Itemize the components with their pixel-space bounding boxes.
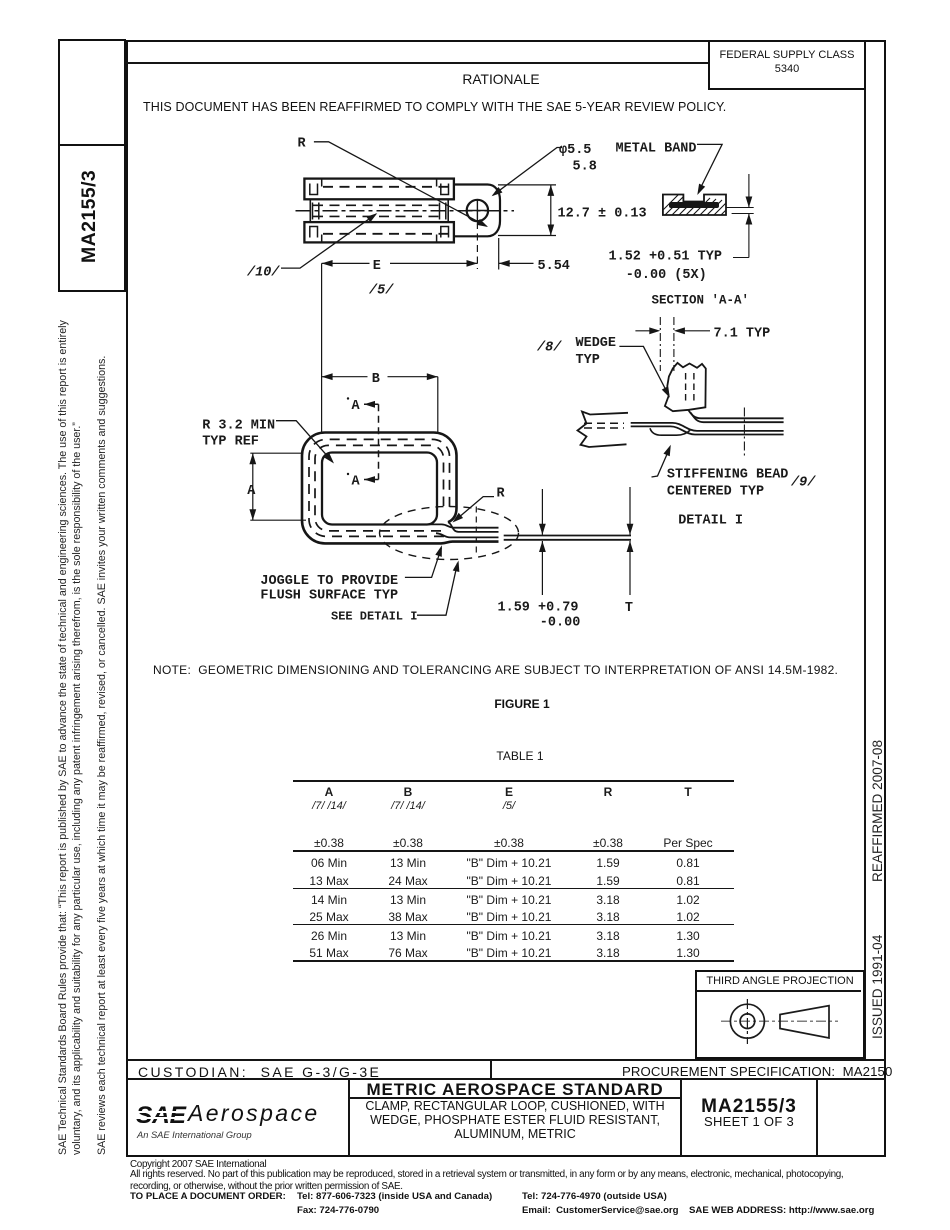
dimension 1.59 (541, 489, 543, 595)
table header row (0, 784, 1, 786)
table data rows (0, 855, 1, 857)
dashed cushion lines bottom band (323, 233, 449, 235)
dimension 7.1 (635, 330, 710, 332)
number cell (682, 1096, 816, 1118)
FIGURE 1 (422, 697, 622, 711)
loop inner edge (322, 453, 437, 525)
section cut line A-A (378, 404, 380, 479)
inner right column line (864, 40, 866, 1060)
table datum refs row (0, 799, 1, 801)
svg-text:/9/: /9/ (790, 476, 816, 491)
bolt hole circle (467, 200, 488, 221)
leader SEE DETAIL I (417, 563, 458, 615)
svg-text:E: E (373, 259, 381, 274)
NOTE line (153, 663, 838, 677)
wedge (665, 363, 706, 411)
joggled strap (631, 423, 784, 431)
custodian band (126, 1059, 886, 1061)
svg-text:T: T (625, 601, 633, 616)
svg-text:5.8: 5.8 (573, 160, 597, 175)
third angle projection symbol (695, 992, 865, 1058)
leader phi 5.5 (493, 148, 562, 196)
clamp top band (304, 179, 454, 200)
svg-text:WEDGE: WEDGE (576, 336, 617, 351)
leader R (front view) (455, 497, 495, 521)
svg-text:METAL BAND: METAL BAND (616, 142, 697, 157)
svg-text:FLUSH SURFACE TYP: FLUSH SURFACE TYP (260, 589, 398, 604)
upper strap (from wedge) (688, 409, 784, 418)
detail centerline (743, 408, 745, 456)
hole center extension (476, 222, 478, 269)
right column rotated: REAFFIRMED 2007-08 (870, 740, 885, 882)
leader /10/ (281, 214, 376, 268)
table tolerance row (0, 835, 1, 837)
svg-text:JOGGLE TO PROVIDE: JOGGLE TO PROVIDE (260, 574, 398, 589)
table rules (293, 780, 734, 782)
title block dividers (348, 1080, 350, 1156)
joggle centerline (475, 507, 477, 553)
stiffening bead (650, 428, 690, 435)
mounting lobe (454, 185, 500, 237)
dimension B (322, 376, 438, 378)
left sidebar rotated disclaimer line 2 (71, 422, 83, 1155)
E/B shared extension line (321, 263, 323, 432)
centerline (296, 210, 515, 212)
leader METAL BAND (697, 144, 722, 192)
clamp bottom band (304, 222, 454, 242)
7.1 typ extension centerlines (660, 317, 674, 371)
left column box empty (58, 39, 126, 146)
middle band end edges (310, 199, 448, 222)
combined strap (504, 536, 631, 540)
title cell (350, 1080, 680, 1100)
dimension T (629, 487, 631, 595)
dimension 12.7 (498, 185, 556, 236)
svg-text:SEE DETAIL I: SEE DETAIL I (331, 609, 417, 623)
right column rotated: ISSUED 1991-04 (870, 935, 885, 1039)
left sidebar rotated disclaimer line 3 (96, 356, 108, 1155)
svg-text:R: R (497, 487, 506, 502)
federal supply class box (708, 40, 866, 90)
dashed cushion lines top band (323, 186, 449, 188)
svg-text:1.52 +0.51 TYP: 1.52 +0.51 TYP (609, 250, 722, 265)
svg-text:TYP: TYP (576, 353, 600, 368)
TABLE 1 label (420, 749, 620, 763)
svg-text:CENTERED TYP: CENTERED TYP (667, 485, 764, 500)
svg-text:7.1 TYP: 7.1 TYP (714, 326, 771, 341)
metal band bar (669, 202, 719, 208)
lobe edge extension (498, 238, 500, 270)
joggle detail ellipse (380, 507, 519, 560)
svg-text:/8/: /8/ (536, 341, 562, 356)
svg-text:TYP REF: TYP REF (202, 434, 259, 449)
reaffirmed statement (143, 100, 726, 114)
svg-text:-0.00: -0.00 (540, 616, 581, 631)
RATIONALE heading (340, 72, 662, 87)
third angle projection box (695, 970, 865, 1059)
dimension 1.52 (726, 174, 754, 258)
B right extension line (437, 377, 439, 433)
loop cushion dashed lines (309, 439, 450, 536)
dimension 5.54 (499, 262, 534, 264)
svg-text:-0.00 (5X): -0.00 (5X) (626, 268, 707, 283)
left column box MA2155/3 (58, 144, 126, 292)
leader R 3.2 MIN TYP REF (276, 421, 333, 462)
lower exit strap (436, 533, 499, 537)
svg-text:1.59 +0.79: 1.59 +0.79 (498, 601, 579, 616)
left sidebar rotated disclaimer line 1 (57, 320, 69, 1155)
SAE Aerospace logo (136, 1098, 351, 1146)
torn strap end (578, 412, 629, 448)
main frame (126, 40, 886, 1157)
svg-text:R: R (298, 137, 307, 152)
loop outer edge (302, 433, 499, 544)
svg-text:A: A (352, 399, 361, 414)
upper exit strap (427, 524, 499, 527)
svg-text:STIFFENING BEAD: STIFFENING BEAD (667, 468, 789, 483)
tab marks left (310, 179, 322, 243)
leader JOGGLE (405, 548, 442, 578)
svg-text:/5/: /5/ (368, 284, 394, 299)
svg-text:B: B (372, 372, 380, 387)
leader STIFFENING BEAD (652, 449, 670, 478)
leader R (top view) (314, 142, 487, 226)
rationale rule (126, 62, 708, 64)
svg-text:5.54: 5.54 (538, 259, 570, 274)
hatching (655, 193, 746, 229)
leader WEDGE TYP (619, 346, 668, 395)
svg-text:SECTION 'A-A': SECTION 'A-A' (652, 294, 750, 308)
svg-text:/10/: /10/ (246, 266, 280, 281)
dimension E (322, 262, 478, 264)
dashed lines middle band (313, 204, 446, 206)
band cross-section outline (663, 195, 726, 216)
svg-text:12.7 ± 0.13: 12.7 ± 0.13 (558, 207, 647, 222)
svg-text:A: A (247, 484, 256, 499)
dimension A (250, 453, 306, 520)
svg-text:φ5.5: φ5.5 (559, 143, 591, 158)
svg-text:R 3.2 MIN: R 3.2 MIN (202, 418, 275, 433)
footer (130, 1159, 266, 1170)
tab marks right (437, 179, 449, 243)
svg-text:A: A (352, 474, 361, 489)
svg-text:DETAIL I: DETAIL I (678, 514, 743, 529)
